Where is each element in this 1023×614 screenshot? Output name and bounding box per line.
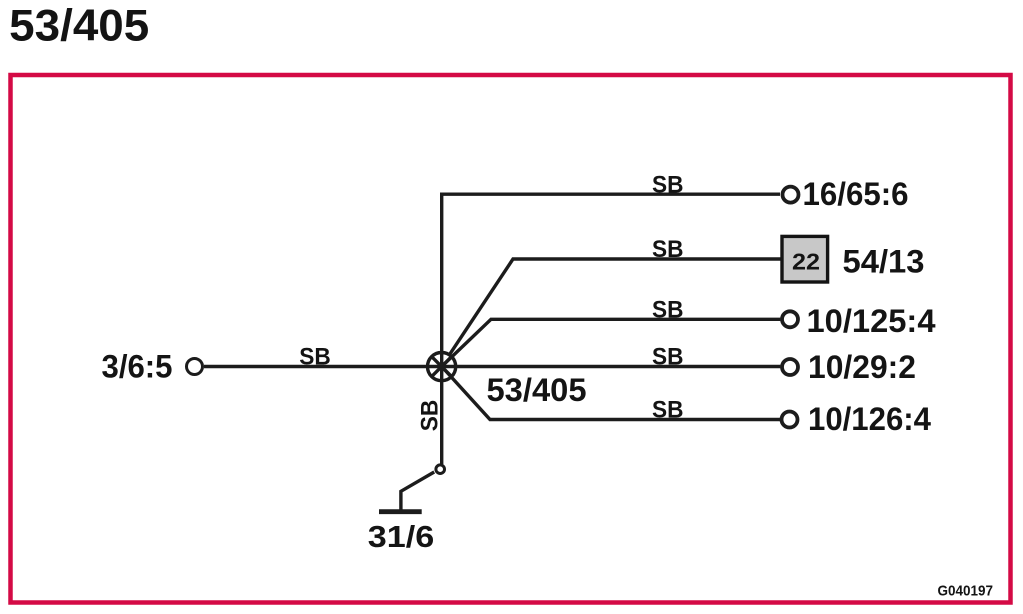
svg-text:10/126:4: 10/126:4 [808,401,931,437]
svg-text:31/6: 31/6 [368,520,435,554]
wire junction to 16/65:6 (net SB) [442,194,780,366]
ground terminal eyelet [436,465,445,474]
wire junction to 10/29:2 (net SB) [442,365,781,368]
wire junction to 10/125:4 (net SB) [442,319,781,366]
svg-text:22: 22 [792,249,820,275]
svg-text:SB: SB [652,397,684,424]
terminal 10/125:4 [782,311,798,327]
wire 3/6:5 to junction (net SB) [204,365,442,368]
connector 54/13 pin 22 [782,236,828,282]
terminal 16/65:6 [783,187,799,203]
svg-text:10/125:4: 10/125:4 [807,303,936,339]
svg-text:54/13: 54/13 [843,243,925,279]
ground 31/6 symbol bar [379,509,422,514]
svg-text:3/6:5: 3/6:5 [102,349,173,385]
svg-text:SB: SB [417,400,444,432]
svg-text:16/65:6: 16/65:6 [803,176,909,212]
svg-text:SB: SB [652,297,684,324]
wire junction to 54/13 (net SB) [449,259,780,355]
svg-text:53/405: 53/405 [9,2,149,51]
junction 53/405 crossed-circle [428,353,456,381]
svg-text:SB: SB [652,171,684,198]
svg-text:10/29:2: 10/29:2 [808,349,916,385]
terminal 10/29:2 [782,359,798,375]
wire junction to 10/126:4 (net SB) [442,367,781,420]
terminal 10/126:4 [782,412,798,428]
svg-text:SB: SB [652,236,684,263]
svg-text:53/405: 53/405 [487,372,587,408]
wire junction to ground terminal (net SB) [440,367,443,465]
svg-text:SB: SB [652,344,684,371]
terminal 3/6:5 [187,359,203,375]
ground lead wire [401,472,434,510]
svg-text:G040197: G040197 [938,583,994,600]
svg-text:SB: SB [299,344,331,371]
